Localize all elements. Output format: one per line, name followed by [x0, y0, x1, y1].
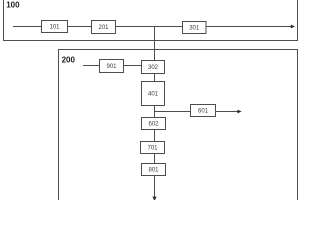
svg-text:201: 201: [98, 25, 109, 31]
svg-text:801: 801: [148, 168, 159, 174]
svg-text:401: 401: [148, 92, 159, 98]
svg-text:301: 301: [189, 26, 200, 32]
svg-text:901: 901: [106, 64, 117, 70]
svg-text:602: 602: [148, 122, 159, 128]
svg-text:701: 701: [147, 146, 158, 152]
svg-text:601: 601: [198, 109, 209, 115]
svg-text:200: 200: [62, 56, 76, 65]
svg-text:101: 101: [49, 25, 60, 31]
svg-text:100: 100: [6, 0, 20, 9]
svg-text:302: 302: [148, 65, 159, 71]
